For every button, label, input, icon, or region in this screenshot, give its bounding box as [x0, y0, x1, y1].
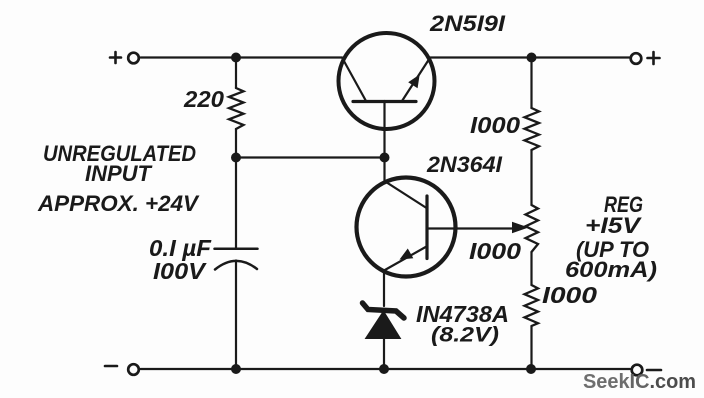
wire top rail right: Q1 emitter to + output terminal — [430, 56, 630, 58]
transistor Q2 2N3641 — [357, 158, 457, 307]
node B: junction 220 / capacitor / cross wire — [231, 153, 241, 163]
terminal: - output (open circle) — [632, 365, 643, 376]
node D: junction top rail / 1000 resistor string — [527, 53, 537, 63]
svg-text:2N364I: 2N364I — [426, 152, 503, 177]
node F: junction bottom rail / zener — [379, 364, 389, 374]
plus sign right output terminal — [648, 52, 660, 64]
svg-text:I00V: I00V — [153, 258, 208, 284]
wire: R2 bottom to pot R3 top — [530, 150, 532, 205]
svg-text:I000: I000 — [469, 238, 521, 264]
terminal: - input (open circle) — [128, 364, 139, 375]
wire: R4 bottom to bottom rail — [530, 326, 532, 369]
Q1 base bar — [353, 100, 416, 103]
node A: junction top rail / 220 resistor — [231, 53, 241, 63]
resistor R1 220 — [229, 88, 244, 129]
wire: pot R3 bottom to R4 top — [530, 252, 532, 285]
svg-text:I000: I000 — [470, 112, 520, 138]
potentiometer R3 wiper arrow (from Q2 base) — [456, 227, 515, 229]
zener cathode bar with bent ends — [363, 303, 405, 318]
Q2 emitter lead with arrow (inside) — [384, 247, 427, 271]
Q2 base bar — [425, 196, 428, 259]
minus sign left output terminal — [105, 365, 117, 368]
svg-text:600mA): 600mA) — [565, 257, 657, 282]
transistor Q1 2N5191 — [339, 33, 435, 157]
resistor R4 1000 (bottom right) — [525, 285, 539, 326]
wire top rail left: + input terminal to 2N5191 collector — [141, 56, 343, 58]
plus sign left input terminal — [110, 52, 121, 63]
zener diode D1 1N4738A — [363, 303, 405, 369]
node G: junction bottom rail / R4 — [526, 364, 536, 374]
wire: node B to node C (horizontal) — [236, 156, 384, 158]
node E: junction bottom rail / capacitor — [231, 364, 241, 374]
zener anode triangle (points up) — [366, 311, 401, 339]
capacitor C1 0.1uF 100V — [215, 249, 258, 270]
Q2 emitter lead down — [383, 271, 385, 307]
Q1 emitter lead with arrow (inside) — [402, 59, 430, 102]
svg-text:INPUT: INPUT — [85, 161, 153, 186]
svg-text:SeekIC.com: SeekIC.com — [583, 371, 696, 393]
svg-text:2N5I9I: 2N5I9I — [429, 11, 506, 36]
resistor R2 1000 (top right) — [525, 108, 540, 150]
Q1 base lead down to node C — [383, 101, 385, 157]
node C: junction Q1 base / Q2 collector — [380, 153, 390, 163]
terminal: + output (open circle) — [631, 53, 642, 64]
potentiometer R3 1000 (zigzag) — [526, 205, 539, 252]
svg-text:+I5V: +I5V — [585, 213, 643, 238]
terminal: + input (open circle) — [128, 53, 139, 64]
wire bottom rail — [141, 368, 631, 370]
svg-text:(8.2V): (8.2V) — [431, 324, 499, 347]
minus sign right output terminal — [647, 369, 661, 372]
Q1 collector lead (inside) — [342, 58, 366, 102]
wire: capacitor C1 to bottom rail — [235, 261, 237, 370]
wire: node D to R2 top — [530, 58, 532, 109]
Q2 collector lead from node C (inside) — [385, 158, 427, 209]
wire: junction to 220 resistor top — [235, 58, 237, 89]
svg-text:APPROX. +24V: APPROX. +24V — [37, 191, 200, 216]
svg-text:220: 220 — [183, 86, 224, 112]
wire: 220 resistor bottom to node B — [235, 129, 237, 158]
wire zener to bottom rail — [383, 338, 385, 369]
svg-text:I000: I000 — [542, 282, 597, 308]
Q2 base lead to wiper — [427, 227, 456, 229]
wire: node B down to capacitor C1 — [235, 158, 237, 248]
